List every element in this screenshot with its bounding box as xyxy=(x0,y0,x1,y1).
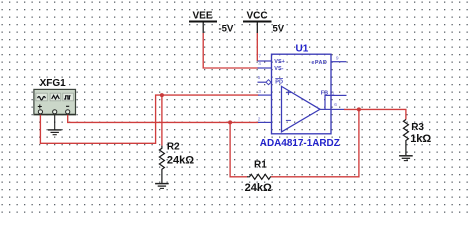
U1 amplifier triangle xyxy=(282,86,321,131)
svg-text:FB: FB xyxy=(321,91,328,97)
resistor R1 xyxy=(245,159,272,194)
svg-text:24kΩ: 24kΩ xyxy=(245,182,272,194)
U1 internal output line xyxy=(320,108,331,110)
pin VS- xyxy=(258,67,272,69)
wire XFG1 COM to ground xyxy=(54,115,56,130)
junction node -IN / R1 xyxy=(228,120,232,124)
svg-text:5V: 5V xyxy=(273,24,285,35)
power VCC xyxy=(243,11,285,35)
pin OUT xyxy=(331,108,345,110)
U1 inverting - mark xyxy=(286,119,291,121)
svg-text:VS-: VS- xyxy=(274,66,283,72)
U1 symbol box xyxy=(272,54,332,134)
power VEE xyxy=(189,11,234,35)
svg-text:2: 2 xyxy=(258,117,261,123)
svg-text:9: 9 xyxy=(336,55,339,61)
svg-text:-5V: -5V xyxy=(219,24,234,35)
pin +IN xyxy=(258,94,272,96)
svg-text:6: 6 xyxy=(334,102,337,108)
svg-text:1: 1 xyxy=(332,91,335,97)
wire VEE to U1 VS- xyxy=(203,33,258,68)
wire U1 OUT to R3 xyxy=(344,109,406,119)
svg-text:5: 5 xyxy=(258,75,261,81)
U1 noninverting + mark xyxy=(286,92,291,94)
svg-text:VEE: VEE xyxy=(192,11,212,22)
XFG1 terminal - xyxy=(66,110,70,114)
XFG1 minus terminal marker xyxy=(66,105,69,107)
pin -IN xyxy=(258,121,272,123)
svg-text:R3: R3 xyxy=(411,122,424,133)
pin FB xyxy=(331,94,347,96)
XFG1 plus terminal marker xyxy=(38,106,42,108)
XFG1 square button xyxy=(63,93,74,101)
ground R2 xyxy=(155,184,169,189)
svg-text:VS+: VS+ xyxy=(274,59,285,65)
pin name labels xyxy=(274,59,328,97)
ground XFG1 xyxy=(48,130,62,135)
U1 internal FB link xyxy=(325,95,331,109)
function generator XFG1 xyxy=(34,78,76,115)
svg-text:4: 4 xyxy=(258,61,261,67)
wire R1 to output node xyxy=(271,109,359,176)
ground R3 xyxy=(399,156,413,161)
svg-text:PD: PD xyxy=(275,80,283,86)
pin VS+ xyxy=(258,60,272,62)
wire VCC to U1 VS+ xyxy=(256,33,258,61)
svg-text:VCC: VCC xyxy=(246,11,267,22)
XFG1 terminal + xyxy=(38,110,42,114)
PD overline xyxy=(275,78,283,80)
junction node +IN / R2 xyxy=(160,93,164,97)
svg-text:7: 7 xyxy=(258,54,261,60)
svg-text:U1: U1 xyxy=(296,43,309,54)
op-amp U1 xyxy=(258,43,347,149)
svg-text:XFG1: XFG1 xyxy=(40,78,67,89)
svg-text:R2: R2 xyxy=(167,142,180,153)
svg-text:R1: R1 xyxy=(254,159,267,170)
pin PD xyxy=(258,81,272,83)
XFG1 case xyxy=(34,89,76,114)
PD unconnected diamond xyxy=(266,80,271,85)
pin ePAD xyxy=(331,61,346,63)
resistor R2 xyxy=(159,142,194,183)
wire XFG1 - to U1 -IN xyxy=(68,115,259,123)
XFG1 sine button xyxy=(36,93,47,101)
svg-text:3: 3 xyxy=(258,89,261,95)
svg-text:ADA4817-1ARDZ: ADA4817-1ARDZ xyxy=(260,138,340,149)
svg-text:1kΩ: 1kΩ xyxy=(410,133,431,145)
junction node OUT xyxy=(357,107,361,111)
svg-text:ePAD: ePAD xyxy=(311,60,327,66)
wire -IN node down to R1 xyxy=(230,122,247,176)
wire node to R2 xyxy=(161,95,163,146)
wire XFG1 + to U1 +IN xyxy=(40,95,258,143)
svg-text:24kΩ: 24kΩ xyxy=(167,155,194,167)
XFG1 terminal COM xyxy=(53,110,57,114)
pin numbers xyxy=(258,54,339,123)
XFG1 triangle button xyxy=(50,93,61,101)
resistor R3 xyxy=(403,120,431,156)
